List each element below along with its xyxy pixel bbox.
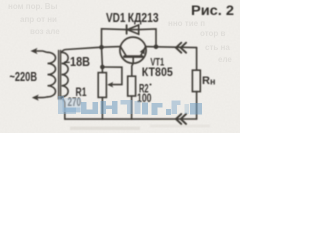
watermark band xyxy=(58,96,202,115)
wire: top rail node A to transistor xyxy=(102,46,121,49)
wire: load resistor to bottom rail xyxy=(196,92,198,119)
ghost bleed-through text top-left xyxy=(8,2,60,36)
wire: R1 to bottom rail xyxy=(101,97,103,119)
watermark letter i1 xyxy=(142,103,148,115)
connector chevrons bottom xyxy=(176,114,186,124)
svg-text:VD1: VD1 xyxy=(106,11,126,25)
svg-text:сть на: сть на xyxy=(205,43,230,52)
wire: emitter rail to output corner xyxy=(146,47,197,48)
resistor Rn body xyxy=(192,70,200,91)
diode VD1 triangle xyxy=(127,25,138,34)
watermark letter u1 xyxy=(81,102,98,114)
faint bottom smudge xyxy=(70,127,140,131)
wire: R2 to bottom rail xyxy=(131,96,133,119)
svg-text:воз але: воз але xyxy=(30,27,60,36)
R1 wiper arrowhead xyxy=(107,82,113,88)
node C junction dot (R1 top) xyxy=(100,65,105,70)
wire: node A down to R1 xyxy=(101,47,104,72)
svg-text:нно тие п: нно тие п xyxy=(168,19,205,28)
watermark block t xyxy=(135,101,141,114)
watermark letter r1 xyxy=(152,103,163,115)
svg-text:ном пор. Вы: ном пор. Вы xyxy=(8,2,58,11)
dot after R2 xyxy=(150,84,152,86)
connector chevrons top xyxy=(176,43,186,53)
wire: transistor base to R2 xyxy=(132,58,133,76)
watermark dot xyxy=(166,109,171,115)
wire: to load resistor xyxy=(196,48,198,71)
diode VD1 cathode bar xyxy=(126,25,128,34)
transistor VT1 emitter with arrow xyxy=(140,47,145,57)
node B junction dot xyxy=(154,45,159,50)
transformer T1 secondary winding xyxy=(62,52,69,97)
ghost bleed-through text right side xyxy=(168,19,232,64)
resistor R1 body (variable) xyxy=(98,73,106,98)
svg-text:–18В: –18В xyxy=(64,54,90,69)
svg-text:апр от ни: апр от ни xyxy=(20,15,57,24)
wire: primary bottom lead with mains arrow xyxy=(34,96,47,99)
svg-text:~220В: ~220В xyxy=(10,70,38,84)
watermark letter r2 xyxy=(172,101,181,115)
wire: primary top lead with mains arrow xyxy=(33,51,48,52)
svg-text:КД213: КД213 xyxy=(128,11,159,25)
svg-text:Rн: Rн xyxy=(202,75,215,87)
svg-text:еле: еле xyxy=(218,55,232,64)
wire: bottom rail xyxy=(65,118,197,120)
wire: secondary top lead / top rail to node A xyxy=(62,47,102,52)
resistor R2 body xyxy=(128,76,136,96)
watermark letter u2 xyxy=(185,104,190,114)
svg-text:Рис. 2: Рис. 2 xyxy=(191,3,234,19)
transformer core xyxy=(59,51,61,100)
svg-text:отор в: отор в xyxy=(200,29,225,38)
watermark letter n xyxy=(101,101,118,114)
wire: secondary bottom lead xyxy=(62,97,65,119)
watermark letter p xyxy=(121,100,133,114)
wire: diode bypass loop xyxy=(102,29,157,47)
transistor VT1 circle xyxy=(120,37,146,63)
transistor VT1 collector xyxy=(120,47,126,57)
node A junction dot xyxy=(99,45,104,50)
paper grain xyxy=(0,0,240,133)
svg-text:КТ805: КТ805 xyxy=(142,65,173,79)
transistor VT1 base bar xyxy=(124,55,142,58)
transformer T1 primary winding xyxy=(48,52,56,97)
wire: R1 wiper link xyxy=(102,67,122,85)
watermark letter L xyxy=(58,96,76,114)
